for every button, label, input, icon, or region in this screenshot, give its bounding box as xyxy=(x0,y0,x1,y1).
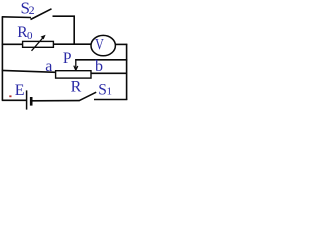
wire R0 to voltmeter xyxy=(53,43,91,45)
wire b (right of box) xyxy=(91,72,127,74)
battery E short plate xyxy=(30,97,33,106)
wiper P vertical with arrowhead xyxy=(75,59,77,70)
voltmeter V circle xyxy=(91,35,115,55)
switch S1 blade xyxy=(79,92,96,101)
svg-text:1: 1 xyxy=(107,86,113,98)
wire S1 to right vertical xyxy=(94,99,127,101)
rheostat R0 arrow xyxy=(32,37,45,51)
wire top left segment xyxy=(2,16,31,19)
wire top right segment xyxy=(53,15,76,17)
wire battery to switch S1 xyxy=(33,100,80,102)
switch S2 blade xyxy=(31,9,52,20)
svg-text:P: P xyxy=(63,50,72,67)
svg-text:E: E xyxy=(15,82,25,99)
wire voltmeter right xyxy=(115,43,127,45)
potentiometer R box xyxy=(56,71,91,78)
svg-text:R: R xyxy=(71,78,82,95)
wire battery left xyxy=(2,99,26,101)
wire left vertical xyxy=(1,17,3,101)
svg-text:V: V xyxy=(95,37,104,54)
battery E long plate xyxy=(26,90,28,109)
red speck xyxy=(9,95,11,97)
svg-text:2: 2 xyxy=(29,3,35,17)
svg-text:a: a xyxy=(45,58,52,75)
svg-text:0: 0 xyxy=(27,30,33,42)
wire wiper loop horizontal xyxy=(75,59,127,61)
wire vertical to node xyxy=(73,16,75,46)
wire R0 left xyxy=(2,43,23,45)
wire right vertical xyxy=(126,44,128,100)
wire a (left of box) xyxy=(2,70,56,72)
svg-text:b: b xyxy=(95,58,103,75)
rheostat R0 box xyxy=(23,41,54,47)
